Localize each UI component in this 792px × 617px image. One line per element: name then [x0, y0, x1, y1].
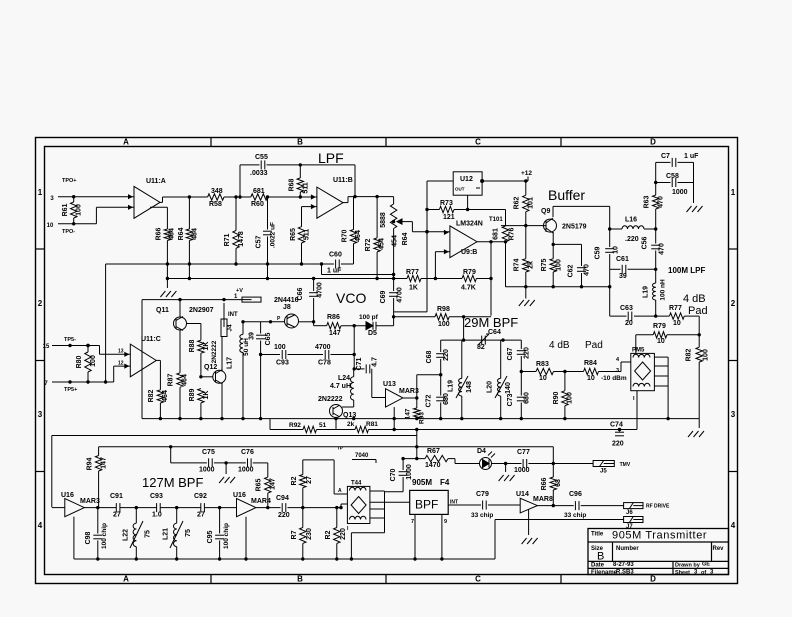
svg-text:4: 4 — [731, 521, 736, 530]
date field — [591, 562, 634, 569]
svg-text:TMV: TMV — [620, 462, 631, 468]
wire U11:A out — [160, 195, 208, 202]
svg-text:R94: R94 — [87, 457, 94, 470]
wire BPF pins — [411, 514, 447, 559]
resistor R83 — [521, 361, 553, 382]
svg-text:GE: GE — [702, 562, 710, 568]
svg-text:C61: C61 — [616, 256, 629, 263]
wire riser R81 — [393, 407, 395, 429]
resistor R2 220 — [325, 508, 347, 559]
sheet field — [675, 569, 714, 576]
wire 29M top rail — [441, 338, 522, 341]
svg-text:R75: R75 — [541, 258, 548, 271]
wire C75 rail — [171, 447, 228, 465]
svg-text:470: 470 — [659, 243, 666, 255]
capacitor C63 — [610, 269, 670, 327]
label 100M LPF — [668, 266, 705, 275]
op-amp U9:B LM324 — [444, 221, 483, 258]
resistor R79 4.7K — [461, 242, 493, 316]
svg-text:127M BPF: 127M BPF — [142, 475, 203, 490]
resistor R62 — [514, 179, 535, 211]
svg-text:A: A — [338, 488, 342, 494]
label 4 dB Pad right — [683, 293, 708, 317]
resistor R76 — [493, 210, 516, 287]
wire VCO top rail — [142, 299, 242, 301]
wire J7 return — [495, 520, 624, 560]
resistor R65 — [290, 207, 317, 264]
svg-text:C93: C93 — [276, 360, 289, 367]
svg-text:TPO-: TPO- — [62, 229, 75, 235]
svg-text:C96: C96 — [569, 491, 582, 498]
svg-text:Rev: Rev — [713, 546, 725, 552]
frame zone ticks — [36, 138, 738, 584]
node T101 — [489, 212, 526, 259]
svg-text:Q11: Q11 — [156, 307, 169, 314]
svg-text:MAR8: MAR8 — [533, 496, 553, 503]
resistor R68 — [289, 165, 310, 197]
svg-text:2N2222: 2N2222 — [211, 340, 218, 363]
wire Q12 emitter — [221, 383, 223, 419]
svg-text:Title: Title — [591, 532, 604, 538]
resistor R74 — [514, 258, 535, 272]
capacitor C95 — [207, 508, 230, 559]
wire U16b out — [256, 506, 281, 509]
wire T44 top — [303, 460, 348, 494]
ground C58 — [687, 206, 703, 212]
svg-text:1 uF: 1 uF — [684, 153, 699, 160]
wire main bus — [142, 417, 699, 420]
wire R58-R60 — [224, 195, 251, 198]
svg-text:R83: R83 — [536, 361, 549, 368]
svg-text:INT: INT — [228, 312, 238, 318]
svg-text:C98: C98 — [85, 531, 92, 544]
capacitor C68 — [426, 340, 450, 375]
svg-text:Pad: Pad — [585, 340, 603, 351]
capacitor C61 — [610, 256, 658, 280]
svg-text:75: 75 — [185, 529, 192, 537]
capacitor C93 — [261, 344, 323, 367]
wire U12 out — [394, 179, 485, 312]
resistor R92 — [289, 422, 327, 433]
wire U16a out — [84, 506, 116, 509]
svg-text:R88: R88 — [189, 339, 196, 352]
capacitor C65 — [249, 322, 273, 419]
filename field — [591, 569, 634, 576]
svg-text:4.7: 4.7 — [372, 357, 379, 367]
resistor R90 — [553, 372, 574, 419]
svg-text:R82: R82 — [148, 389, 155, 402]
pin 7 label — [44, 381, 48, 387]
svg-text:R.SB3: R.SB3 — [616, 569, 634, 575]
wire in bot U11:C — [52, 380, 114, 383]
svg-text:C91: C91 — [110, 493, 123, 500]
svg-text:C70: C70 — [390, 468, 397, 481]
transistor Q12 — [204, 340, 226, 384]
capacitor C69 — [380, 279, 404, 326]
svg-text:13: 13 — [118, 349, 124, 355]
resistor R88 — [189, 339, 210, 353]
svg-text:2: 2 — [38, 299, 43, 308]
resistor R66 68 — [541, 464, 562, 506]
svg-text:39: 39 — [619, 273, 627, 280]
pin 3 label — [50, 196, 54, 202]
svg-text:454: 454 — [379, 238, 386, 250]
svg-text:U11:B: U11:B — [333, 177, 353, 184]
svg-text:220: 220 — [524, 347, 531, 359]
wire Q12 collector — [221, 337, 223, 372]
svg-text:C78: C78 — [318, 360, 331, 367]
svg-text:681: 681 — [253, 188, 265, 195]
resistor R70 — [342, 197, 363, 264]
wire gnd bus LPF — [106, 262, 354, 265]
svg-text:R64: R64 — [402, 232, 409, 245]
resistor R77 1K — [406, 269, 462, 292]
inductor L21 — [163, 508, 193, 559]
svg-text:R76: R76 — [509, 227, 516, 240]
mixer PM5 — [631, 348, 655, 391]
ground C75 — [219, 463, 235, 483]
svg-text:10: 10 — [673, 320, 681, 327]
svg-text:C65: C65 — [265, 332, 272, 345]
svg-text:140: 140 — [505, 382, 512, 394]
wire PM5 bottom pin — [633, 391, 637, 430]
svg-text:R73: R73 — [440, 200, 453, 207]
svg-text:905M Transmitter: 905M Transmitter — [612, 530, 707, 542]
transistor Q9 — [501, 208, 587, 233]
svg-text:147: 147 — [405, 408, 412, 419]
svg-text:680: 680 — [524, 392, 531, 404]
resistor R84 — [584, 360, 627, 382]
drawn by field — [675, 562, 710, 569]
wire -in U11:B — [268, 195, 317, 198]
wire T44 right pins — [347, 491, 410, 559]
svg-text:33 chip: 33 chip — [471, 512, 493, 519]
svg-text:C62: C62 — [568, 264, 575, 277]
svg-text:.220: .220 — [625, 236, 639, 243]
capacitor C91 — [110, 493, 157, 519]
capacitor C93b — [150, 493, 201, 519]
wire U11:B out — [343, 195, 394, 203]
transistor J8 2N4416 — [274, 297, 299, 328]
svg-text:4700: 4700 — [315, 344, 331, 351]
svg-text:J6: J6 — [626, 510, 633, 516]
svg-text:MAR4: MAR4 — [251, 498, 271, 505]
inductor L19b — [448, 340, 474, 419]
svg-text:484: 484 — [169, 228, 176, 240]
svg-text:C: C — [475, 575, 481, 584]
svg-text:27: 27 — [197, 512, 205, 519]
svg-text:R71: R71 — [224, 233, 231, 246]
capacitor C92 — [194, 493, 237, 519]
svg-text:L19: L19 — [448, 380, 455, 392]
svg-text:220: 220 — [340, 528, 347, 540]
svg-text:Q9: Q9 — [541, 208, 550, 215]
capacitor C74 — [610, 422, 624, 448]
wire U12 bottom pin — [468, 195, 506, 209]
svg-text:2N4416: 2N4416 — [274, 297, 299, 304]
capacitor C72 — [426, 375, 451, 419]
svg-text:100M LPF: 100M LPF — [668, 266, 705, 275]
label 127M BPF — [142, 475, 203, 490]
svg-text:TP: TP — [337, 446, 343, 451]
svg-text:R65: R65 — [256, 478, 263, 491]
resistor R93 — [405, 408, 426, 424]
svg-text:R79: R79 — [653, 323, 666, 330]
resistor R67 — [403, 448, 448, 469]
ground buffer — [506, 272, 612, 306]
wire PM5 right pins — [654, 357, 668, 419]
svg-text:R62: R62 — [514, 196, 521, 209]
svg-text:L24: L24 — [338, 375, 350, 382]
svg-text:12: 12 — [118, 361, 124, 367]
svg-text:R98: R98 — [437, 306, 450, 313]
resistor R71 — [224, 195, 245, 264]
node TPO- — [62, 229, 75, 235]
wire staircase top — [100, 346, 131, 355]
svg-text:-10 dBm: -10 dBm — [601, 375, 627, 382]
svg-text:Buffer: Buffer — [548, 187, 585, 203]
svg-text:C79: C79 — [476, 491, 489, 498]
svg-text:2: 2 — [731, 299, 736, 308]
svg-text:454: 454 — [392, 235, 399, 247]
svg-text:1478: 1478 — [238, 231, 245, 247]
svg-text:905M: 905M — [412, 478, 432, 487]
svg-text:484: 484 — [192, 228, 199, 240]
svg-text:U11:C: U11:C — [141, 336, 161, 343]
svg-text:C: C — [475, 138, 481, 147]
wire R83-R84 — [554, 370, 584, 373]
svg-text:R80: R80 — [76, 355, 83, 368]
resistor R60 — [251, 188, 268, 208]
svg-text:R2: R2 — [291, 476, 298, 485]
svg-text:+12: +12 — [521, 170, 532, 177]
svg-text:C74: C74 — [610, 422, 623, 429]
jumper W1 — [234, 288, 261, 302]
resistor R86 — [327, 314, 341, 337]
op-amp U11:B — [311, 177, 353, 218]
svg-text:7: 7 — [411, 519, 414, 525]
pin 15 label — [43, 344, 50, 350]
inductor L17 — [227, 322, 251, 419]
inductor L20 — [487, 340, 513, 419]
wire LM324 out — [477, 240, 507, 243]
svg-text:R70: R70 — [342, 229, 349, 242]
svg-text:OUT: OUT — [455, 187, 465, 192]
svg-text:100: 100 — [438, 321, 450, 328]
svg-text:C72: C72 — [426, 394, 433, 407]
wire U13 out — [403, 375, 419, 408]
svg-text:R90: R90 — [553, 391, 560, 404]
capacitor C96 — [537, 491, 623, 519]
pin 10 label — [47, 223, 54, 229]
wire VCO left rail — [141, 300, 143, 419]
node 7040 — [352, 453, 376, 463]
svg-text:100: 100 — [556, 259, 563, 271]
resistor R72 — [365, 197, 386, 279]
wire T44 pin3 — [339, 504, 347, 509]
svg-text:U11:A: U11:A — [146, 178, 166, 185]
svg-text:100 chip: 100 chip — [101, 523, 108, 549]
node TPO+ — [62, 178, 77, 184]
capacitor C98 — [85, 508, 108, 559]
svg-text:C64: C64 — [488, 329, 501, 336]
svg-text:1000: 1000 — [514, 467, 530, 474]
resistor R73 — [427, 200, 469, 221]
svg-text:4700: 4700 — [397, 287, 404, 303]
svg-text:C95: C95 — [207, 530, 214, 543]
svg-text:3: 3 — [731, 410, 736, 419]
svg-text:121: 121 — [443, 214, 455, 221]
border frame inner — [45, 147, 729, 575]
svg-text:.0033: .0033 — [250, 170, 268, 177]
node TP5+ — [64, 387, 77, 393]
svg-text:BPF: BPF — [415, 498, 438, 512]
svg-text:464: 464 — [355, 230, 362, 242]
resistor R94 — [87, 447, 108, 508]
wire staircase bottom — [114, 361, 131, 383]
resistor R81 — [347, 421, 378, 433]
inductor L22 — [123, 508, 152, 559]
svg-text:C7: C7 — [661, 153, 670, 160]
connector J5 — [593, 461, 631, 475]
svg-text:230: 230 — [306, 528, 313, 540]
svg-text:Number: Number — [616, 546, 639, 552]
svg-text:C73: C73 — [507, 393, 514, 406]
svg-text:1K: 1K — [203, 342, 210, 351]
svg-text:Filename: Filename — [591, 570, 618, 576]
capacitor C76 — [238, 449, 268, 474]
svg-text:L22: L22 — [123, 529, 130, 541]
svg-text:51: 51 — [319, 422, 327, 429]
capacitor C62 — [552, 243, 591, 287]
svg-text:R89: R89 — [189, 388, 196, 401]
inductor L19 — [643, 269, 667, 316]
svg-text:101: 101 — [528, 197, 535, 209]
svg-text:C63: C63 — [620, 305, 633, 312]
svg-text:220: 220 — [278, 512, 290, 519]
svg-text:LPF: LPF — [318, 150, 344, 166]
svg-text:10: 10 — [539, 375, 547, 382]
capacitor C59 — [595, 229, 620, 269]
svg-text:100: 100 — [567, 392, 574, 404]
capacitor C70 — [385, 457, 414, 492]
svg-text:R79: R79 — [463, 269, 476, 276]
wire Q11 base — [187, 324, 201, 341]
svg-text:470: 470 — [658, 196, 665, 208]
svg-text:10: 10 — [47, 223, 54, 229]
svg-text:R60: R60 — [251, 201, 264, 208]
svg-text:464: 464 — [162, 390, 169, 402]
svg-text:Pad: Pad — [688, 305, 708, 317]
wire PM5 top pin — [635, 335, 637, 354]
wire to -in U11:A — [96, 207, 134, 224]
svg-text:R82: R82 — [686, 348, 693, 361]
ground LPF — [160, 264, 176, 297]
svg-text:C77: C77 — [517, 449, 530, 456]
svg-text:MAR3: MAR3 — [399, 388, 419, 395]
svg-text:10: 10 — [613, 246, 620, 254]
svg-text:R58: R58 — [209, 201, 222, 208]
svg-text:R64: R64 — [178, 227, 185, 240]
svg-text:U16: U16 — [61, 492, 74, 499]
svg-text:T44: T44 — [351, 481, 362, 487]
svg-text:T101: T101 — [489, 217, 503, 223]
svg-text:2k: 2k — [528, 261, 535, 269]
svg-text:1000: 1000 — [199, 467, 215, 474]
svg-text:4.7K: 4.7K — [461, 285, 476, 292]
label Buffer — [548, 187, 585, 203]
svg-text:680: 680 — [443, 393, 450, 405]
connector J6 — [624, 503, 670, 516]
title block box — [588, 529, 729, 575]
capacitor C79 — [448, 491, 520, 519]
svg-text:R86: R86 — [327, 314, 340, 321]
inductor L16 — [608, 217, 657, 244]
svg-text:B: B — [597, 551, 604, 563]
svg-text:R77: R77 — [406, 269, 419, 276]
svg-text:R2: R2 — [325, 530, 332, 539]
svg-text:C58: C58 — [666, 173, 679, 180]
svg-text:464: 464 — [182, 374, 189, 386]
svg-text:4 dB: 4 dB — [549, 340, 570, 351]
svg-text:C57: C57 — [256, 235, 263, 248]
svg-text:33 chip: 33 chip — [564, 512, 586, 519]
op-amp U11:A — [128, 178, 166, 218]
svg-text:C93: C93 — [150, 493, 163, 500]
transistor Q11 — [156, 298, 214, 331]
svg-text:C94: C94 — [276, 495, 289, 502]
svg-text:L20: L20 — [487, 381, 494, 393]
resistor R77 10 — [669, 305, 699, 327]
wire tap 29M — [417, 373, 443, 376]
capacitor C58 — [654, 162, 694, 203]
amplifier U13 — [383, 381, 419, 407]
svg-text:C56: C56 — [642, 236, 649, 249]
node TP5- — [64, 337, 76, 343]
connector J7 — [624, 517, 643, 531]
svg-text:INT: INT — [450, 500, 458, 506]
wire Q9 collector — [553, 206, 610, 229]
filter BPF 905M F4 — [410, 478, 450, 514]
svg-text:C60: C60 — [329, 252, 342, 259]
svg-text:2k: 2k — [347, 421, 355, 428]
svg-text:4: 4 — [38, 521, 43, 530]
svg-text:R74: R74 — [514, 258, 521, 271]
svg-text:U16: U16 — [233, 492, 246, 499]
svg-text:20: 20 — [625, 320, 633, 327]
svg-text:LM324N: LM324N — [456, 221, 483, 228]
resistor R7 — [291, 508, 313, 559]
svg-text:1.0: 1.0 — [152, 512, 162, 519]
resistor R98 — [394, 306, 491, 340]
wire C55 right leg — [354, 165, 356, 197]
svg-text:R72: R72 — [365, 238, 372, 251]
wire R92 R81 rail — [270, 419, 637, 432]
wire VCO mid — [353, 324, 356, 370]
svg-text:1000: 1000 — [672, 189, 688, 196]
svg-text:100: 100 — [90, 355, 97, 367]
wire J8 gate — [241, 316, 284, 323]
svg-text:220: 220 — [443, 349, 450, 361]
svg-text:100: 100 — [703, 349, 710, 361]
svg-text:R93: R93 — [419, 412, 426, 424]
svg-text:C92: C92 — [194, 493, 207, 500]
svg-text:348: 348 — [211, 188, 223, 195]
svg-text:TP5-: TP5- — [64, 337, 76, 343]
transformer T44 — [347, 481, 370, 524]
ground U14 — [522, 510, 538, 545]
svg-text:RF DRIVE: RF DRIVE — [646, 504, 670, 510]
